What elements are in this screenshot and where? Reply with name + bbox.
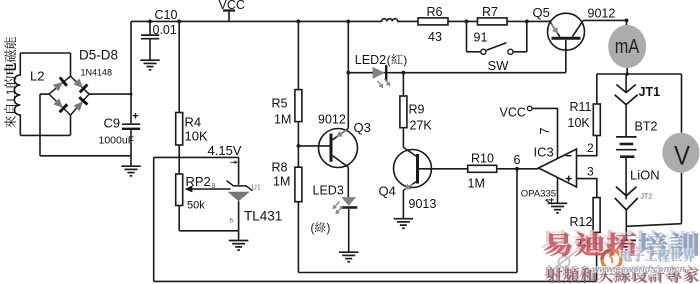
svg-text:27K: 27K bbox=[410, 119, 433, 133]
svg-text:6: 6 bbox=[230, 218, 234, 225]
svg-text:43: 43 bbox=[428, 30, 442, 44]
svg-text:L2: L2 bbox=[30, 69, 44, 84]
svg-text:): ) bbox=[327, 223, 331, 235]
svg-text:9012: 9012 bbox=[588, 6, 616, 20]
svg-text:Q4: Q4 bbox=[379, 184, 396, 199]
svg-text:1000uF: 1000uF bbox=[99, 135, 135, 147]
svg-text:V: V bbox=[674, 141, 690, 171]
svg-text:(: ( bbox=[311, 223, 315, 235]
svg-text:mA: mA bbox=[615, 36, 640, 58]
svg-text:LED2: LED2 bbox=[355, 53, 386, 67]
svg-text:U1: U1 bbox=[252, 185, 261, 192]
svg-text:7: 7 bbox=[538, 128, 552, 135]
svg-text:D5-D8: D5-D8 bbox=[79, 48, 118, 63]
svg-text:1M: 1M bbox=[274, 113, 291, 127]
svg-text:SW: SW bbox=[488, 58, 510, 73]
svg-text:1M: 1M bbox=[468, 177, 485, 191]
svg-text:JT2: JT2 bbox=[641, 194, 653, 201]
svg-text:10K: 10K bbox=[185, 129, 208, 144]
svg-text:TL431: TL431 bbox=[244, 209, 282, 224]
svg-text:C9: C9 bbox=[104, 116, 121, 131]
svg-text:1M: 1M bbox=[273, 175, 290, 189]
svg-text:L1: L1 bbox=[6, 89, 18, 102]
svg-text:VCC: VCC bbox=[219, 0, 245, 12]
svg-text:6: 6 bbox=[514, 153, 521, 167]
svg-text:BT2: BT2 bbox=[635, 120, 658, 134]
svg-text:9012: 9012 bbox=[318, 113, 346, 127]
svg-text:VCC: VCC bbox=[500, 106, 526, 120]
svg-text:IC3: IC3 bbox=[534, 145, 554, 160]
svg-text:C10: C10 bbox=[155, 8, 178, 22]
svg-text:Q5: Q5 bbox=[533, 5, 550, 20]
svg-text:LED3: LED3 bbox=[313, 184, 344, 198]
svg-text:R11: R11 bbox=[570, 100, 592, 114]
svg-text:3: 3 bbox=[587, 165, 594, 179]
svg-text:1N4148: 1N4148 bbox=[81, 68, 113, 78]
svg-text:OPA335: OPA335 bbox=[521, 189, 556, 200]
svg-text:2: 2 bbox=[587, 141, 594, 155]
svg-text:R5: R5 bbox=[272, 97, 288, 111]
svg-text:4.15V: 4.15V bbox=[208, 143, 242, 158]
svg-text:0.01: 0.01 bbox=[153, 23, 177, 37]
svg-text:50k: 50k bbox=[187, 199, 205, 211]
svg-text:9013: 9013 bbox=[409, 197, 437, 211]
svg-text:RP2: RP2 bbox=[186, 174, 211, 189]
svg-text:91: 91 bbox=[474, 31, 488, 45]
svg-text:10K: 10K bbox=[568, 116, 591, 130]
svg-text:R4: R4 bbox=[185, 115, 202, 130]
svg-text:): ) bbox=[403, 53, 407, 67]
svg-text:R8: R8 bbox=[272, 161, 288, 175]
svg-text:R10: R10 bbox=[471, 151, 494, 165]
svg-text:LiON: LiON bbox=[630, 168, 660, 183]
svg-text:R12: R12 bbox=[570, 215, 593, 229]
svg-text:www.eeworld.com.cn: www.eeworld.com.cn bbox=[592, 264, 685, 274]
svg-text:JT1: JT1 bbox=[639, 85, 661, 99]
svg-text:R9: R9 bbox=[409, 103, 425, 117]
svg-text:R6: R6 bbox=[427, 5, 443, 19]
svg-text:(: ( bbox=[387, 53, 391, 67]
svg-text:R7: R7 bbox=[482, 5, 498, 19]
svg-text:Q3: Q3 bbox=[354, 120, 371, 135]
